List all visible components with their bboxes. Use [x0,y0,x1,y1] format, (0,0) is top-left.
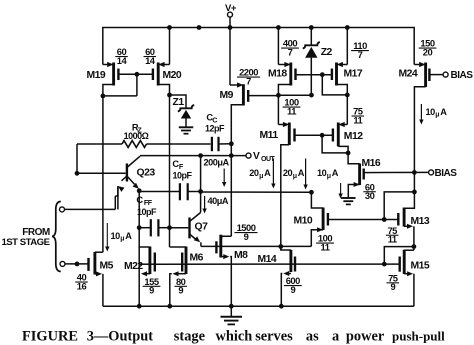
svg-text:10pF: 10pF [137,207,157,217]
wire: comp node horizontal (Q7 collector node to M10 drain) [201,191,312,193]
wire: RZ to Cc [147,143,211,145]
transistor M13 (NMOS 75/11) [403,208,406,227]
transistor M16 (NMOS 60/30) [358,164,361,186]
svg-text:Q23: Q23 [137,168,156,179]
wire: rail drop to M17 source [346,28,348,65]
wire: M5 drain lead [95,251,103,253]
junction dot M24 drain line lower [412,190,417,195]
svg-text:3—Output: 3—Output [87,329,154,345]
svg-text:9: 9 [178,285,183,296]
wire: M13 source down to M15 drain [404,225,408,227]
wire: M14 source to bus [287,273,291,275]
wire: V+ rail (top supply rail) [103,28,414,65]
svg-text:200μA: 200μA [204,157,230,167]
wire: gate node B drop to node B bus [322,75,347,95]
wire: lower input wire to M5 gate [65,263,88,265]
junction dot bus at M22 [137,304,142,309]
junction dot CFF right [167,225,172,230]
transistor M19 (PMOS 60/14) [112,63,115,86]
wire: M11 drain down to Q7 emitter wire [281,145,290,247]
svg-text:stage: stage [174,329,206,345]
svg-text:7: 7 [288,46,293,57]
svg-text:11: 11 [353,114,362,125]
label 10uA current arrow into M5 [106,223,108,247]
junction dot gate node B [320,72,325,77]
node BIAS terminal (lower) [429,170,434,175]
svg-text:M16: M16 [362,158,381,169]
transistor M17 (PMOS 110/7) [335,63,338,86]
svg-text:M15: M15 [411,260,430,271]
junction dot rail x=311 [309,25,314,30]
wire: M22 drain up to CFF node [139,228,150,247]
svg-text:20: 20 [423,46,433,57]
svg-text:M17: M17 [344,69,363,80]
ground at M16 source [341,197,356,199]
zener diode Z2 [310,28,312,46]
junction dot M19/M20 common gate [135,72,140,77]
svg-text:20: 20 [283,168,293,178]
transistor M20 (PMOS 60/14) [157,63,160,86]
svg-text:9: 9 [244,231,249,242]
junction dot M11/M12 gate node [320,133,325,138]
svg-text:12pF: 12pF [205,123,225,133]
wire: M15 drain [404,249,414,251]
svg-text:M9: M9 [220,90,234,101]
junction dot RZ node [75,171,80,176]
transistor M8 (NMOS 1500/9) [219,235,222,258]
junction dot M12/M16 drain node [346,151,351,156]
wire: node A bus [278,94,311,96]
node input terminal upper [60,207,65,212]
transistor Q7 (NPN) [188,218,190,239]
wire: long gate wire M22-M6-M14-M15 [155,263,400,265]
junction dot node A at Z1 line [309,93,314,98]
wire: M14 drain to M11 drain node [281,247,291,251]
svg-text:9: 9 [149,285,154,296]
junction dot VOUT line / CF branch [198,153,203,158]
transistor M5 (NMOS 40/16) [93,252,96,275]
svg-text:1ST STAGE: 1ST STAGE [1,237,50,248]
wire: M15 source to bus [404,273,408,275]
svg-text:M24: M24 [399,69,418,80]
svg-text:V+: V+ [225,3,237,14]
svg-text:7: 7 [246,75,251,86]
svg-text:Z1: Z1 [173,97,185,108]
svg-text:as: as [306,329,319,345]
svg-text:11: 11 [388,234,397,245]
transistor M15 (NMOS 75/9) [403,250,406,274]
wire: rail drop to M20 source [169,28,171,65]
junction dot VOUT line / M9 drain [229,153,234,158]
junction dot rail x=230 [228,25,233,30]
wire: drain node to M16 drain [348,153,360,164]
junction dot rail x=199 [197,25,202,30]
transistor Q23 (NPN, dual emitter) [126,164,128,182]
wire: M10 source down to emitter wire [317,229,323,231]
node VOUT terminal [246,153,251,158]
svg-text:30: 30 [365,190,375,201]
wire: M16 source to ground [354,184,360,186]
zener diode Z1 [178,105,194,111]
wire: branch to M10 gate wire [384,192,414,220]
junction dot at M10 drain line [309,190,314,195]
resistor RZ 1000ohm [76,144,78,173]
svg-text:14: 14 [145,55,156,66]
svg-text:11: 11 [287,105,296,116]
svg-text:BIAS: BIAS [435,168,458,179]
capacitor CC 12pF [211,137,213,151]
junction dot rail x=169 [167,25,172,30]
wire: node B down to M12 source [346,95,348,125]
svg-text:10: 10 [111,231,121,241]
wire: BIAS lower wire from M16 gate [364,171,429,173]
wire: long vertical M19-drain node down to M5 drain [102,96,104,252]
junction dot CFF left [137,225,142,230]
svg-text:serves: serves [255,329,293,345]
svg-text:M5: M5 [100,261,114,272]
junction dot rail x=347 [345,25,350,30]
svg-text:A: A [332,168,339,178]
wire: gate node drop to drain node [322,135,348,153]
svg-text:Z2: Z2 [321,47,333,58]
junction dot bus at M8/ground [229,304,234,309]
transistor M24 (PMOS 150/20) [424,63,427,88]
svg-text:A: A [440,107,447,117]
wire: M6 source to bus [177,273,187,275]
junction dot on lower input wire [75,262,80,267]
wire: long vertical M20-drain node down to M6 drain [169,95,171,247]
svg-text:A: A [264,168,271,178]
junction dot bus at M6 [167,304,172,309]
wire: V+ stem down to M9 source [229,28,231,86]
svg-text:a: a [332,329,339,345]
node BIAS terminal (top) [443,72,448,77]
svg-text:V: V [253,151,260,162]
svg-text:μ: μ [327,173,331,180]
svg-text:M11: M11 [260,130,279,141]
junction dot Cc right at M9 drain line [229,141,234,146]
svg-text:which: which [216,329,253,345]
svg-text:M19: M19 [87,70,106,81]
svg-text:10: 10 [426,107,436,117]
transistor M6 (NMOS 80/9) [185,247,188,275]
transistor M12 (PMOS 75/11) [337,123,340,147]
svg-text:M18: M18 [268,69,287,80]
wire: Q7 emitter node wire to M10 source [201,245,311,247]
wire: M10 gate wire to M13 [328,219,398,221]
svg-text:M13: M13 [411,216,430,227]
transistor M9 (PMOS 2200/7) [242,84,245,105]
capacitor CF 10pF [138,191,140,228]
svg-text:M14: M14 [258,254,277,265]
svg-text:FIGURE: FIGURE [22,329,78,345]
node input terminal lower [60,261,65,266]
label 10uA current arrow at M24 drain [420,104,422,120]
svg-text:10: 10 [317,168,327,178]
svg-text:9: 9 [390,281,395,292]
junction dot at M15 gate wire [382,262,387,267]
svg-text:20: 20 [249,168,259,178]
transistor M10 (NMOS 100/11) [322,208,325,231]
junction dot node A left [276,93,281,98]
wire: rail drop to M18 source [277,28,279,65]
svg-text:μ: μ [293,173,297,180]
wire: M8 source to bus [221,256,225,258]
junction dot Q23 right emitter node [137,188,142,193]
svg-text:M20: M20 [163,70,182,81]
wire: M18-M17 gate wire [296,74,332,76]
svg-text:1000Ω: 1000Ω [124,131,149,141]
wire: Q23 collector to VOUT line [140,155,246,157]
junction dot M13 source / M15 drain node [412,244,417,249]
svg-text:M6: M6 [190,253,204,264]
wire: node A down to M11 source [277,95,279,124]
wire: M22 source to bus [146,273,150,275]
wire: M9 gate to node A [248,95,278,97]
junction dot M10/M13 gate node [382,217,387,222]
svg-text:10pF: 10pF [172,171,192,181]
transistor M22 (NMOS 155/9) [148,247,151,275]
svg-text:Q7: Q7 [195,222,209,233]
svg-text:push-pull: push-pull [392,329,445,344]
svg-text:μ: μ [259,173,263,180]
wire: M9 drain vertical down to M8 [230,144,232,236]
wire: node to Z1 [170,95,187,108]
wire: M24 drain node to M13 drain [404,192,414,208]
junction dot M19 drain node [101,94,106,99]
junction dot CF right node [198,189,203,194]
ground below Z1 [179,126,194,128]
wire: M12 drain to M16 drain node [338,146,348,153]
wire: M5 source to bus [95,273,98,275]
svg-text:M8: M8 [234,250,248,261]
svg-text:FF: FF [144,198,153,207]
junction dot M24 drain line at BIAS wire [412,170,417,175]
transistor M11 (PMOS 100/11) [288,123,291,146]
svg-text:40μA: 40μA [208,196,229,206]
wire: M11-M12 gate wire [295,134,333,136]
node V+ terminal [229,17,231,27]
svg-text:9: 9 [290,284,295,295]
svg-text:M12: M12 [344,131,363,142]
wire: CFF node to Q7 base [170,227,189,229]
wire: comp node to M10 drain [311,192,323,208]
wire: M19-M20 gate wire [118,73,152,75]
wire: M19 drain to gate node [103,95,137,97]
wire: upper input wire [65,208,116,210]
label 40uA current arrow [204,196,206,209]
wire: CF node vertical (VOUT line to Q7 collector) [200,156,202,213]
wire: bottom supply bus [103,305,414,307]
svg-text:FROM: FROM [22,227,50,238]
svg-text:μ: μ [435,111,439,118]
svg-text:7: 7 [358,49,363,60]
svg-text:power: power [346,329,385,345]
svg-text:A: A [125,231,132,241]
svg-text:M10: M10 [294,216,313,227]
wire: node branch to M15 gate wire [384,247,414,265]
svg-text:14: 14 [117,55,128,66]
svg-text:BIAS: BIAS [451,70,474,81]
wire: M9 drain to M8 drain bend [222,236,232,239]
capacitor CFF 10pF [139,227,151,229]
svg-text:μ: μ [120,236,124,243]
wire: M22 gate from vertical [139,263,155,265]
junction dot bus at M14 [279,304,284,309]
svg-text:A: A [298,168,305,178]
svg-text:C: C [136,195,143,205]
transistor M18 (PMOS 400/7) [289,63,292,86]
wire: M6 drain up to CFF node [170,246,187,248]
wire: M20 drain down [158,85,169,96]
svg-text:11: 11 [321,241,330,252]
junction dot node B at M12 source drop [345,93,350,98]
junction dot M20 drain / Z1 node [167,93,172,98]
svg-text:16: 16 [77,280,87,291]
junction dot rail x=278 [276,25,281,30]
svg-text:M22: M22 [124,261,143,272]
junction dot M11 drain at emitter wire [278,244,283,249]
ground at bottom bus [230,306,232,316]
wire: M24 gate to BIAS terminal [429,74,443,76]
transistor M14 (NMOS 600/9) [289,250,292,272]
